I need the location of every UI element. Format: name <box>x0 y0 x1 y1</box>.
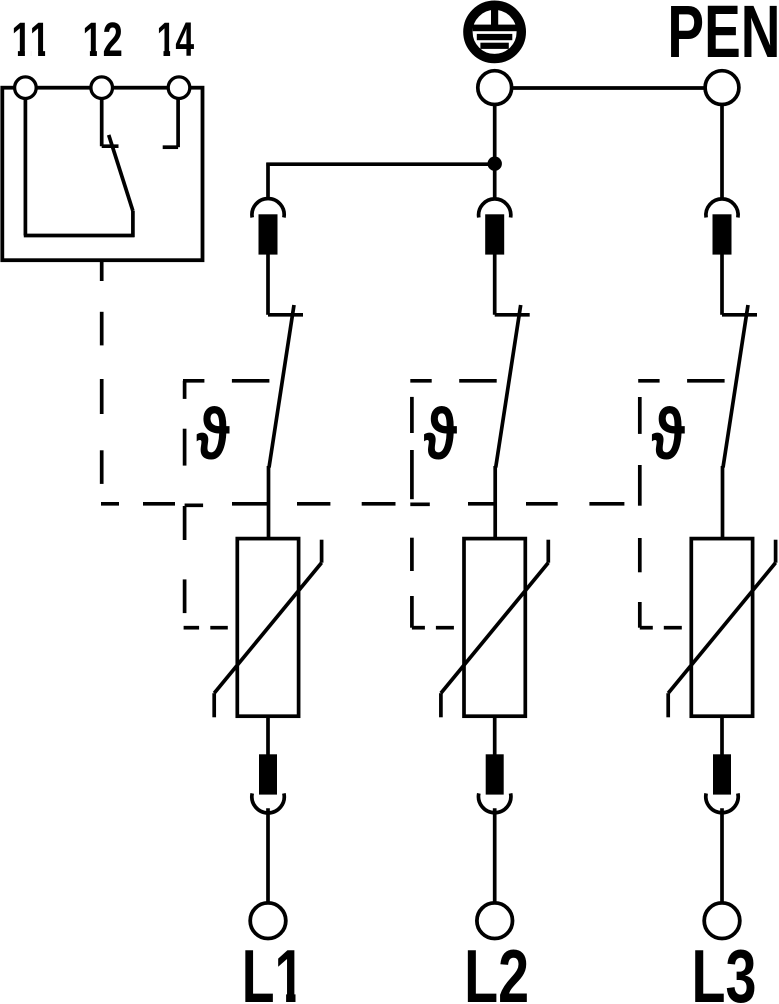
svg-text:L3: L3 <box>691 935 756 1004</box>
svg-text:14: 14 <box>157 12 194 67</box>
svg-text:12: 12 <box>82 13 122 67</box>
svg-text:ϑ: ϑ <box>423 394 457 475</box>
svg-text:L2: L2 <box>464 935 529 1004</box>
svg-text:L1: L1 <box>242 934 305 1004</box>
svg-text:11: 11 <box>11 13 49 67</box>
svg-text:PEN: PEN <box>667 0 779 73</box>
svg-text:ϑ: ϑ <box>651 394 685 475</box>
svg-text:ϑ: ϑ <box>196 394 230 475</box>
